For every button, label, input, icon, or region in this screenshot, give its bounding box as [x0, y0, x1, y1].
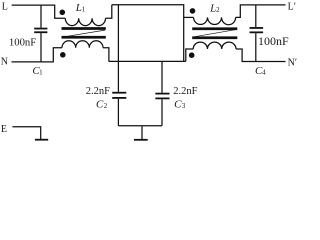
- svg-text:2.2nF: 2.2nF: [86, 86, 110, 97]
- svg-text:2: 2: [216, 6, 220, 14]
- svg-text:2: 2: [104, 102, 108, 110]
- svg-text:L′: L′: [288, 2, 296, 13]
- svg-text:1: 1: [82, 5, 86, 13]
- svg-text:4: 4: [262, 69, 266, 77]
- svg-text:2.2nF: 2.2nF: [173, 86, 197, 97]
- svg-text:N′: N′: [288, 58, 297, 69]
- svg-text:N: N: [1, 57, 8, 68]
- svg-text:L: L: [2, 2, 8, 13]
- svg-text:100nF: 100nF: [9, 36, 36, 48]
- svg-text:100nF: 100nF: [258, 34, 289, 48]
- svg-text:1: 1: [39, 69, 43, 77]
- svg-text:3: 3: [182, 102, 186, 110]
- svg-text:L: L: [75, 2, 82, 14]
- svg-text:E: E: [1, 124, 7, 135]
